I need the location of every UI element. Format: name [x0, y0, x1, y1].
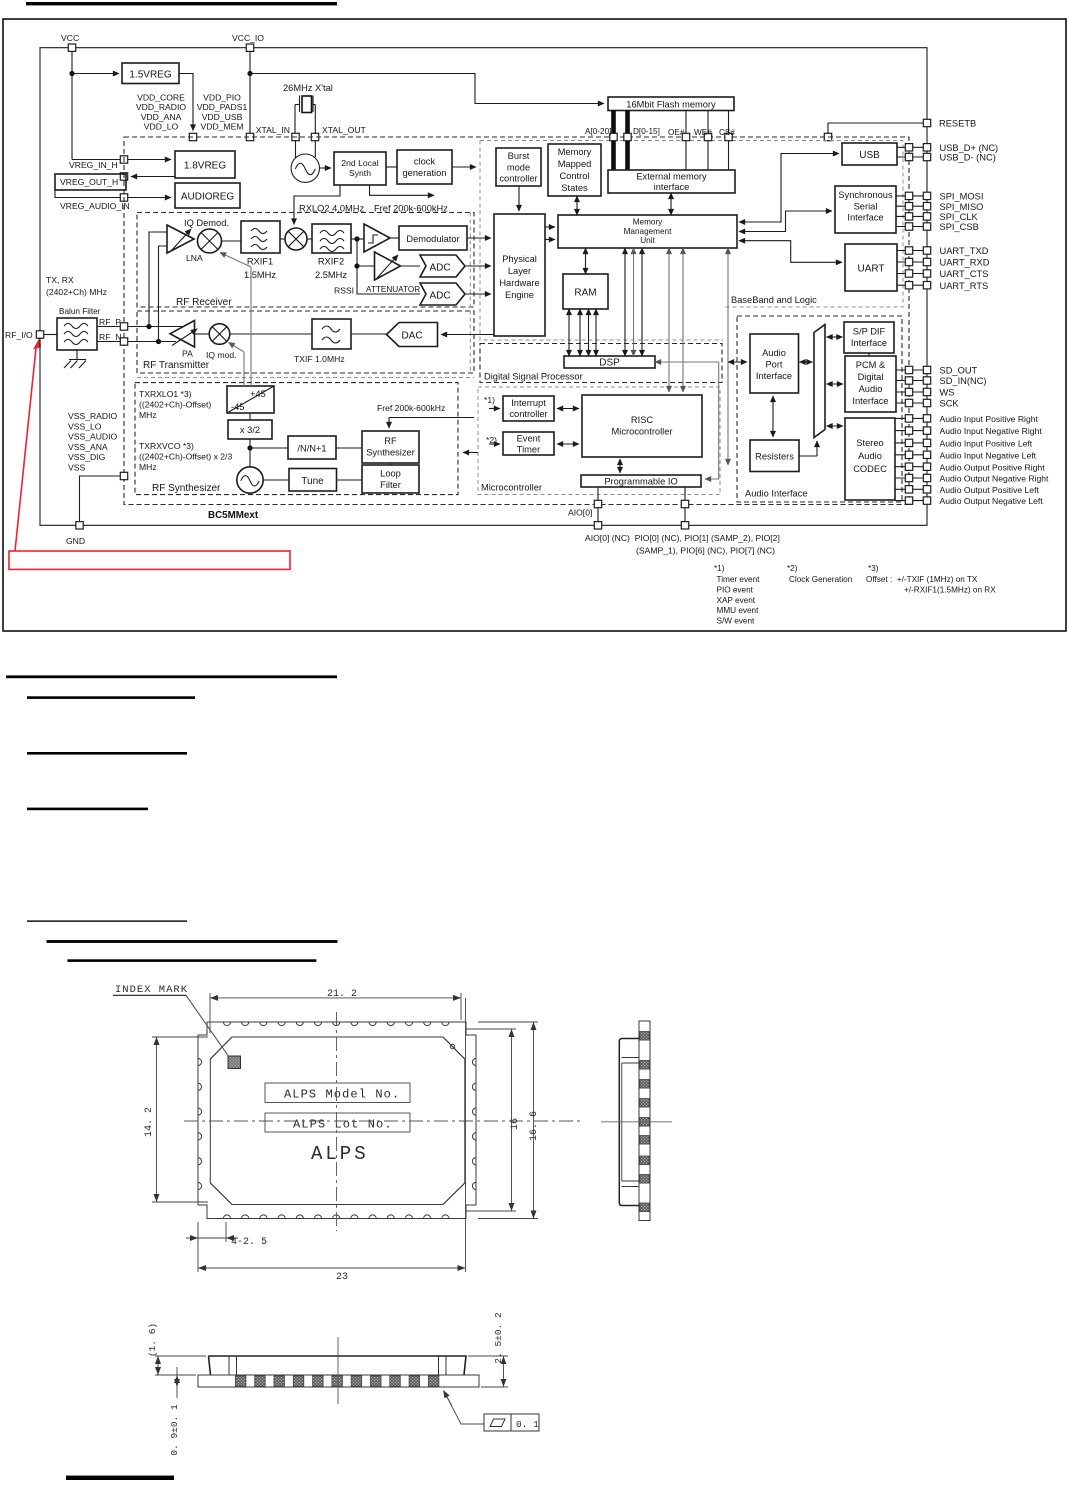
svg-text:Balun Filter: Balun Filter	[59, 307, 101, 316]
svg-text:0. 1: 0. 1	[516, 1419, 539, 1430]
dimension 16	[466, 1029, 516, 1211]
svg-text:1.5VREG: 1.5VREG	[129, 70, 171, 81]
wire LO to TX mixer gray	[243, 352, 245, 386]
wire LO to RX mixer gray	[250, 267, 252, 386]
svg-text:VREG_OUT_H: VREG_OUT_H	[60, 177, 118, 187]
block RISC Microcontroller	[582, 395, 702, 457]
svg-text:Offset : +/-TXIF (1MHz) on TX: Offset : +/-TXIF (1MHz) on TX	[866, 575, 978, 584]
svg-text:WE#: WE#	[694, 128, 712, 137]
boundary BaseBand and Logic	[480, 141, 903, 308]
pin SPI_CLK	[896, 215, 923, 217]
mixer IQ demodulator	[198, 229, 222, 253]
wire VREG_IN_H	[72, 159, 171, 161]
svg-text:RF Transmitter: RF Transmitter	[143, 360, 210, 371]
svg-text:ALPS Lot No.: ALPS Lot No.	[293, 1118, 393, 1132]
wire into interrupt controller	[489, 408, 500, 410]
svg-text:RF_N: RF_N	[99, 332, 121, 342]
svg-text:Audio Output Negative Right: Audio Output Negative Right	[940, 474, 1050, 484]
ground balun	[76, 350, 78, 359]
svg-text:Audio Input Positive Left: Audio Input Positive Left	[940, 439, 1033, 449]
svg-text:16Mbit Flash memory: 16Mbit Flash memory	[626, 100, 716, 110]
svg-text:*3): *3)	[868, 564, 879, 573]
svg-text:UART: UART	[857, 264, 884, 275]
svg-text:ATTENUATOR: ATTENUATOR	[366, 285, 420, 294]
svg-text:Audio Output Positive Right: Audio Output Positive Right	[940, 462, 1046, 472]
pad VDD supplies	[189, 133, 196, 140]
svg-text:UART_RXD: UART_RXD	[940, 258, 990, 268]
leader index mark	[186, 995, 228, 1055]
oscillator symbol	[291, 154, 319, 182]
junction RF_P	[146, 324, 151, 329]
wire VCC vertical feed	[71, 51, 73, 160]
wire audio port to resisters	[772, 396, 774, 437]
svg-text:MemoryMappedControlStates: MemoryMappedControlStates	[558, 147, 592, 193]
wire x3/2 to VCO	[249, 439, 251, 467]
svg-text:OE#: OE#	[668, 128, 685, 137]
svg-text:+/-RXIF1(1.5MHz) on RX: +/-RXIF1(1.5MHz) on RX	[904, 586, 996, 595]
wire WE#	[707, 111, 709, 171]
wire RESETB tap	[828, 123, 923, 133]
filter RXIF1	[241, 221, 280, 253]
svg-text:IQ Demod.: IQ Demod.	[184, 218, 229, 228]
dimension 21.2	[210, 993, 461, 1033]
wire RAM-DSP 4	[595, 309, 597, 356]
block Demodulator	[399, 226, 467, 250]
svg-text:AUDIOREG: AUDIOREG	[181, 192, 235, 203]
pin SPI_CSB	[896, 226, 923, 228]
boundary digital upper section	[480, 141, 723, 341]
wire ADC2 to PLHE	[465, 293, 491, 295]
block RAM	[563, 274, 608, 309]
svg-text:XTAL_IN: XTAL_IN	[256, 125, 290, 135]
svg-text:RXIF11.5MHz: RXIF11.5MHz	[244, 257, 276, 281]
svg-text:Digital Signal Processor: Digital Signal Processor	[484, 372, 583, 382]
svg-text:Audio Interface: Audio Interface	[745, 489, 808, 499]
svg-text:External memoryinterface: External memoryinterface	[636, 172, 707, 193]
svg-text:Timer eventPIO eventXAP eventM: Timer eventPIO eventXAP eventMMU eventS/…	[717, 575, 761, 626]
wire PLHE to MMU lower	[545, 239, 555, 241]
pin USB_D-	[897, 156, 923, 158]
pin UART_CTS	[897, 273, 923, 275]
wire mixer2 to RXIF2	[307, 238, 312, 240]
wire CS#	[728, 111, 730, 171]
svg-text:VCC_IO: VCC_IO	[232, 33, 264, 43]
svg-text:ADC: ADC	[429, 291, 450, 302]
svg-text:BC5MMext: BC5MMext	[208, 510, 259, 521]
wire bus to SPDIF	[827, 336, 843, 338]
pad GND	[76, 522, 83, 529]
svg-text:4-2. 5: 4-2. 5	[231, 1237, 267, 1248]
wire to attenuator	[357, 265, 375, 267]
svg-text:16: 16	[510, 1118, 521, 1130]
block RF Synthesizer	[362, 431, 419, 463]
svg-text:Microcontroller: Microcontroller	[481, 483, 542, 493]
svg-text:VDD_COREVDD_RADIOVDD_ANAVDD_LO: VDD_COREVDD_RADIOVDD_ANAVDD_LO	[136, 93, 186, 132]
wire mixer to TXIF	[230, 333, 312, 335]
svg-text:RF_P: RF_P	[99, 317, 121, 327]
svg-text:BaseBand and Logic: BaseBand and Logic	[731, 295, 817, 305]
svg-text:TXRXLO1 *3)((2402+Ch)-Offset): TXRXLO1 *3)((2402+Ch)-Offset)MHz	[139, 389, 211, 420]
wire synth to loop filter	[389, 463, 391, 465]
svg-text:x 3/2: x 3/2	[240, 425, 260, 435]
wire N to RF synthesizer	[336, 447, 362, 449]
pin Audio Input Positive Left	[895, 442, 923, 444]
pad RF_P	[120, 323, 127, 330]
svg-text:16. 6: 16. 6	[529, 1111, 540, 1141]
wire demod to RXIF1	[222, 240, 242, 242]
svg-text:StereoAudioCODEC: StereoAudioCODEC	[853, 438, 887, 474]
svg-text:WS: WS	[940, 388, 955, 398]
mixer second downconversion	[285, 228, 307, 250]
block Memory Management Unit	[558, 215, 737, 248]
wire AIO 2	[684, 487, 686, 525]
amplifier attenuator	[375, 252, 401, 280]
svg-text:USB_D+ (NC): USB_D+ (NC)	[940, 143, 999, 153]
block Physical Layer Hardware Engine	[494, 214, 545, 336]
svg-text:Audio Output Negative Left: Audio Output Negative Left	[940, 496, 1044, 506]
svg-text:PA: PA	[182, 349, 193, 359]
section heading underline C	[27, 752, 187, 755]
dimension 23	[198, 998, 466, 1272]
wire EMI to MMU	[670, 193, 672, 215]
block SP DIF Interface	[844, 322, 894, 353]
svg-text:S/P DIFInterface: S/P DIFInterface	[851, 327, 887, 349]
wire event timer to RISC	[557, 443, 579, 445]
bus A[0-20]	[611, 111, 616, 171]
junction synth feedback	[247, 445, 252, 450]
wire RAM-DSP 3	[588, 309, 590, 356]
pad AIO rail 2	[681, 522, 688, 529]
index mark square	[228, 1056, 241, 1069]
bottom view PCB slab	[198, 1375, 479, 1387]
block Audio Port Interface	[750, 334, 799, 393]
bus D[0-15]	[625, 111, 630, 171]
wire VSS to GND rail	[80, 476, 121, 522]
pad RESETB	[923, 119, 930, 126]
wire Fref to RF synthesizer	[389, 417, 474, 419]
svg-text:RFSynthesizer: RFSynthesizer	[366, 436, 415, 458]
section heading underline E	[27, 920, 187, 921]
wire XTAL_IN lead	[294, 105, 296, 134]
wire VCC to 1.5VREG	[72, 73, 119, 75]
wire MMU to UART	[739, 241, 842, 263]
wire RF_I/O to balun	[44, 334, 57, 336]
wire ADC1 to PLHE	[465, 265, 491, 267]
wire RXIF1 to mixer2	[280, 238, 285, 240]
svg-text:0. 9±0. 1: 0. 9±0. 1	[169, 1404, 180, 1456]
svg-text:EventTimer: EventTimer	[517, 434, 541, 455]
wire PLHE to DAC	[441, 334, 494, 336]
section heading underline B	[27, 696, 195, 699]
block /N/N+1	[288, 436, 336, 459]
filter Balun	[57, 318, 97, 350]
wire RAM-DSP 2	[579, 309, 581, 356]
svg-text:Resisters: Resisters	[755, 452, 794, 462]
block External memory interface	[608, 170, 735, 193]
svg-text:SynchronousSerialInterface: SynchronousSerialInterface	[838, 190, 893, 223]
wire MMU-DSP 1	[624, 248, 626, 356]
block Synchronous Serial Interface	[835, 186, 896, 233]
svg-text:INDEX MARK: INDEX MARK	[115, 984, 188, 996]
figure frame	[3, 19, 1066, 631]
svg-text:AIO[0]: AIO[0]	[568, 508, 592, 518]
bottom view pads	[235, 1376, 246, 1386]
pad WE#	[704, 133, 711, 140]
wire SPDIF to PCM	[868, 353, 870, 356]
wire loop filter to tune	[337, 479, 363, 481]
side view castellation pads	[640, 1032, 649, 1041]
svg-text:1.8VREG: 1.8VREG	[184, 161, 226, 172]
wire resisters to bus	[799, 455, 817, 457]
wire MMU to audio column	[727, 248, 729, 465]
pad CS#	[725, 133, 732, 140]
wire synth Fref out	[370, 185, 435, 195]
svg-text:DAC: DAC	[401, 331, 422, 342]
svg-text:LoopFilter: LoopFilter	[380, 469, 401, 491]
svg-text:Audio Input Negative Left: Audio Input Negative Left	[940, 450, 1037, 460]
block UART	[845, 244, 897, 291]
pad AIO chip 2	[681, 500, 688, 507]
adc ADC1	[420, 255, 465, 277]
svg-text:Fref 200k-600kHz: Fref 200k-600kHz	[377, 403, 445, 413]
wire AIO 1	[597, 487, 599, 525]
wire MMU-DSP 2	[633, 248, 635, 356]
wire junction to divider N	[250, 447, 288, 449]
svg-text:VCC: VCC	[61, 33, 79, 43]
block Resisters	[750, 440, 799, 472]
wire MMU to RAM	[585, 248, 587, 274]
svg-text:GND: GND	[66, 536, 85, 546]
wire interrupt to RISC	[557, 408, 579, 410]
boundary Digital Signal Processor	[480, 344, 722, 383]
pin Audio Output Negative Left	[895, 500, 923, 502]
wire MMU to SSI	[739, 211, 832, 232]
svg-text:TX, RX: TX, RX	[46, 275, 74, 285]
side view centerline	[601, 1121, 672, 1123]
flatness feature control frame	[484, 1414, 539, 1431]
wire VREG_OUT_H	[131, 176, 175, 178]
wire synth to clockgen	[386, 166, 397, 168]
svg-text:Audio Output Positive Left: Audio Output Positive Left	[940, 485, 1040, 495]
wire RF_P to LNA	[149, 232, 167, 327]
pin Audio Input Negative Left	[895, 454, 923, 456]
pad VREG_OUT_H	[120, 173, 127, 180]
wire MMU to USB	[739, 154, 839, 223]
wire synth to RX mixer	[294, 185, 340, 225]
pin UART_TXD	[897, 250, 923, 252]
wire MMU-RISC 2	[682, 248, 684, 392]
svg-text:RSSI: RSSI	[334, 286, 354, 296]
svg-text:2. 5±0. 2: 2. 5±0. 2	[493, 1312, 504, 1364]
mech lid corner hole	[450, 1044, 454, 1048]
svg-text:Audio Input Positive Right: Audio Input Positive Right	[940, 414, 1039, 424]
svg-text:Tune: Tune	[301, 476, 324, 487]
block PCM Digital Audio Interface	[845, 356, 896, 412]
pad VREG_IN_H	[120, 156, 127, 163]
centerline vertical top view	[336, 1012, 338, 1231]
pin SCK	[896, 402, 923, 404]
bottom view cover step right	[439, 1356, 447, 1375]
bottom view cover step left	[229, 1356, 237, 1375]
block Tune	[289, 469, 337, 492]
block 2nd Local Synth	[334, 152, 386, 185]
svg-text:DSP: DSP	[599, 358, 620, 369]
svg-text:VREG_AUDIO_IN: VREG_AUDIO_IN	[60, 201, 130, 211]
wire XTAL_OUT lead	[314, 105, 316, 134]
svg-text:ALPS Model No.: ALPS Model No.	[284, 1088, 400, 1102]
pad RF_N	[120, 338, 127, 345]
pin WS	[896, 391, 923, 393]
wire burst to PLHE	[518, 186, 520, 211]
svg-text:RESETB: RESETB	[939, 119, 976, 129]
wire RISC to Programmable IO	[619, 459, 621, 473]
pin UART_RTS	[897, 284, 923, 286]
pad XTAL_OUT	[311, 133, 318, 140]
svg-text:SPI_MOSI: SPI_MOSI	[940, 192, 984, 202]
boundary RF Synthesizer	[135, 383, 458, 495]
wire MMCS to MMU	[576, 196, 578, 215]
section heading underline F	[47, 940, 338, 943]
wire PA to mixer	[195, 333, 210, 335]
slicer limiter	[364, 224, 390, 252]
svg-text:RXIF22.5MHz: RXIF22.5MHz	[315, 257, 347, 281]
svg-text:TXRXVCO *3)((2402+Ch)-Offset): TXRXVCO *3)((2402+Ch)-Offset) x 2/3MHz	[139, 441, 232, 472]
block x3/2	[228, 420, 272, 439]
pad AIO rail 1	[594, 522, 601, 529]
wire MMU-RISC 1	[668, 248, 670, 392]
mech lid corner chamfer marks	[210, 1037, 464, 1205]
svg-text:clockgeneration: clockgeneration	[403, 157, 447, 179]
wire PLHE to MMU upper	[545, 226, 555, 228]
svg-text:SPI_CSB: SPI_CSB	[940, 222, 979, 232]
pad A bus	[610, 133, 617, 140]
label VREG_OUT_H box	[55, 174, 126, 190]
pin Audio Input Positive Right	[895, 417, 923, 419]
svg-text:SPI_CLK: SPI_CLK	[940, 212, 979, 222]
pad VREG_AUDIO_IN	[120, 194, 127, 201]
regulator 1.8VREG	[175, 151, 235, 178]
svg-text:2nd LocalSynth: 2nd LocalSynth	[341, 158, 378, 178]
svg-text:ALPS: ALPS	[311, 1143, 369, 1165]
wire RSSI branch	[357, 239, 420, 294]
svg-text:USB: USB	[859, 150, 880, 161]
wire MMU-DSP 3	[641, 248, 643, 356]
mech top view inner lid outline	[210, 1037, 464, 1205]
side view PCB strip	[639, 1021, 650, 1221]
svg-text:A[0-20]: A[0-20]	[585, 127, 611, 136]
pad VCC	[68, 44, 75, 51]
boundary Microcontroller	[478, 387, 720, 495]
svg-text:VDD_PIOVDD_PADS1VDD_USBVDD_MEM: VDD_PIOVDD_PADS1VDD_USBVDD_MEM	[197, 93, 248, 132]
wire bus to PCM	[827, 383, 844, 385]
block Programmable IO	[581, 475, 701, 487]
svg-text:PCM &DigitalAudioInterface: PCM &DigitalAudioInterface	[852, 360, 888, 406]
pad VCC_IO boundary	[246, 133, 253, 140]
bottom view cover	[209, 1356, 467, 1375]
divider +45/-45	[227, 386, 274, 413]
dimension 16.6	[478, 1022, 538, 1219]
bus bar audio	[814, 325, 825, 438]
svg-text:(2402+Ch) MHz: (2402+Ch) MHz	[46, 287, 107, 297]
pin Audio Output Positive Left	[895, 488, 923, 490]
svg-text:SPI_MISO: SPI_MISO	[940, 202, 984, 212]
wire RF_N to LNA	[159, 246, 168, 342]
filter TXIF	[312, 319, 351, 349]
wire audio port to bus	[800, 361, 813, 363]
svg-text:RAM: RAM	[574, 288, 596, 299]
pad RF_I/O	[36, 331, 43, 338]
svg-text:23: 23	[336, 1272, 348, 1283]
mech top view outline with notches	[198, 1022, 476, 1219]
wire event timer to RF synthesizer	[463, 452, 478, 454]
regulator AUDIOREG	[175, 183, 240, 208]
block DSP	[564, 356, 655, 368]
svg-text:AudioPortInterface: AudioPortInterface	[756, 348, 792, 381]
wire DSP to Programmable IO	[655, 362, 719, 479]
pin SD_IN	[896, 380, 923, 382]
block Interrupt controller	[503, 396, 554, 421]
svg-text:VREG_IN_H: VREG_IN_H	[69, 160, 118, 170]
block USB	[842, 143, 897, 165]
boundary RF Receiver	[137, 213, 474, 308]
svg-text:(SAMP_1), PIO[6] (NC), PIO[7]: (SAMP_1), PIO[6] (NC), PIO[7] (NC)	[636, 546, 775, 556]
svg-text:UART_CTS: UART_CTS	[940, 269, 989, 279]
wire oscillator to 2nd local synth	[320, 167, 331, 169]
wire RF_N	[97, 341, 176, 343]
svg-text:USB_D- (NC): USB_D- (NC)	[940, 153, 996, 163]
wire RXIF2 to slicer	[351, 238, 364, 240]
svg-text:RISCMicrocontroller: RISCMicrocontroller	[612, 415, 673, 437]
svg-text:/N/N+1: /N/N+1	[297, 444, 326, 454]
svg-text:Interruptcontroller: Interruptcontroller	[509, 398, 547, 419]
svg-text:Clock Generation: Clock Generation	[789, 575, 853, 584]
centerline horizontal top view	[184, 1120, 580, 1122]
wire VCC_IO vertical	[249, 51, 251, 134]
wire slicer to demodulator	[390, 237, 399, 239]
svg-text:Burstmodecontroller: Burstmodecontroller	[499, 151, 537, 184]
section heading underline G	[67, 959, 316, 962]
dimension 0.9	[176, 1367, 178, 1398]
side view cover step lines	[622, 1058, 640, 1187]
amplifier PA	[170, 321, 195, 348]
flatness callout leader	[446, 1395, 484, 1424]
title underline	[26, 2, 337, 5]
red redaction box	[9, 551, 290, 569]
svg-text:*1): *1)	[714, 564, 725, 573]
svg-text:CS#: CS#	[719, 128, 735, 137]
dimension 4-2.5	[186, 1222, 238, 1242]
chip boundary BC5MMext	[124, 137, 909, 505]
pad D bus	[624, 133, 631, 140]
svg-text:*1): *1)	[484, 395, 495, 405]
junction RSSI attenuator	[354, 263, 359, 268]
mixer IQ modulator	[209, 324, 230, 345]
junction RX IF out	[354, 236, 359, 241]
svg-text:AIO[0] (NC) PIO[0] (NC), PIO[: AIO[0] (NC) PIO[0] (NC), PIO[1] (SAMP_2)…	[585, 533, 780, 543]
svg-text:IQ mod.: IQ mod.	[206, 350, 237, 360]
boundary RF Transmitter	[137, 311, 474, 373]
wire demodulator to PLHE	[467, 237, 491, 239]
bottom section underline	[66, 1476, 174, 1480]
wire VREG_AUDIO_IN	[55, 190, 171, 198]
wire VCC_IO to flash memory	[250, 74, 604, 104]
pad RESETB boundary	[824, 133, 831, 140]
adc ADC2	[420, 283, 465, 305]
svg-text:TXIF 1.0MHz: TXIF 1.0MHz	[294, 354, 345, 364]
svg-text:-45: -45	[231, 402, 244, 412]
section heading underline D	[27, 808, 148, 811]
block Burst mode controller	[496, 148, 541, 186]
